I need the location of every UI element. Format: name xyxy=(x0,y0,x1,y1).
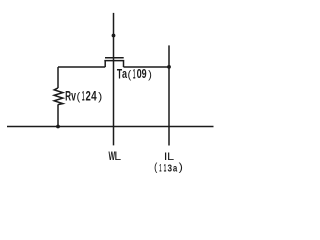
wire: Rv bottom lead xyxy=(57,104,59,126)
node: junction dot on WL xyxy=(112,34,116,38)
svg-text:L: L xyxy=(114,149,121,163)
svg-text:R: R xyxy=(65,89,71,104)
svg-text:T: T xyxy=(117,68,122,82)
svg-text:): ) xyxy=(98,89,102,102)
svg-text:a: a xyxy=(173,162,178,173)
node: junction dot Rv / bottom rail xyxy=(56,125,60,129)
label: net name WL xyxy=(109,149,122,163)
svg-text:0: 0 xyxy=(137,68,142,82)
label: resistor designator Rv(124) xyxy=(65,88,102,105)
wire: long bottom horizontal rail xyxy=(7,126,214,128)
svg-text:L: L xyxy=(167,150,174,163)
transistor Ta(109) channel and source/drain steps xyxy=(104,61,124,67)
svg-text:a: a xyxy=(122,68,128,82)
label: net name IL xyxy=(164,150,175,163)
wire: signal line IL (vertical) xyxy=(168,45,170,145)
svg-text:): ) xyxy=(148,69,152,81)
wire: Ta drain to IL (right horizontal) xyxy=(124,66,170,68)
svg-text:3: 3 xyxy=(167,162,172,174)
label: reference (113a) xyxy=(154,161,183,175)
svg-text:(: ( xyxy=(154,162,158,173)
svg-text:v: v xyxy=(71,90,76,104)
wire: Rv top lead xyxy=(57,67,59,88)
label: transistor designator Ta(109) xyxy=(117,68,152,83)
wire: word line WL (vertical) xyxy=(113,13,115,146)
svg-text:1: 1 xyxy=(164,161,167,174)
svg-text:1: 1 xyxy=(159,162,162,174)
resistor Rv(124) zigzag xyxy=(54,88,63,105)
svg-text:(: ( xyxy=(77,91,81,103)
node: junction dot Ta drain / IL xyxy=(167,65,171,69)
svg-text:2: 2 xyxy=(86,89,92,104)
svg-text:): ) xyxy=(179,161,183,174)
svg-text:1: 1 xyxy=(82,90,85,105)
svg-text:9: 9 xyxy=(142,68,147,82)
transistor Ta(109) gate bar xyxy=(105,57,124,59)
svg-text:1: 1 xyxy=(133,68,136,83)
svg-text:(: ( xyxy=(128,69,132,81)
svg-text:4: 4 xyxy=(91,88,97,104)
wire: Ta source to Rv branch (left horizontal) xyxy=(58,66,105,68)
